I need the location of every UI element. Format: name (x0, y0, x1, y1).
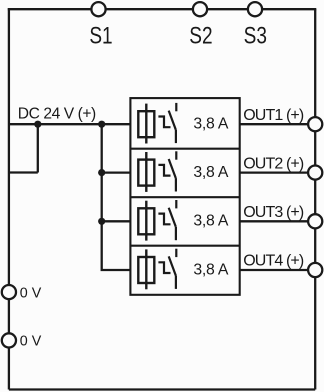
svg-text:DC 24 V (+): DC 24 V (+) (18, 106, 96, 123)
wire left bus (8, 8, 10, 389)
svg-text:0 V: 0 V (20, 334, 42, 350)
breaker CB1 (158, 103, 176, 143)
wire OUT4 (240, 269, 316, 271)
fuse F2 (138, 152, 154, 192)
svg-text:3,8 A: 3,8 A (193, 213, 228, 230)
wire loop vertical (37, 124, 39, 172)
wire OUT1 (240, 123, 316, 125)
terminal OUT2 (308, 166, 322, 180)
svg-text:S3: S3 (244, 22, 267, 50)
terminal S1 (91, 2, 105, 16)
wire right bus (314, 9, 316, 389)
svg-text:S1: S1 (89, 22, 112, 50)
node junction dot B (98, 121, 105, 128)
node junction dot C (98, 169, 105, 176)
svg-text:OUT3 (+): OUT3 (+) (243, 204, 304, 221)
terminal 0V a (2, 285, 16, 299)
wire OUT3 (240, 220, 316, 222)
module box U1 (130, 98, 239, 295)
breaker CB3 (158, 200, 176, 240)
terminal S2 (193, 2, 207, 16)
channel symbols: fuse + breaker (138, 103, 176, 289)
svg-text:3,8 A: 3,8 A (193, 261, 228, 278)
divider row1/2 (130, 148, 239, 150)
divider row2/3 (130, 196, 239, 198)
terminal 0V b (2, 333, 16, 347)
svg-text:0 V: 0 V (20, 285, 42, 301)
breaker CB4 (158, 249, 176, 289)
wire DC 24V feed (9, 123, 130, 125)
svg-text:OUT2 (+): OUT2 (+) (243, 155, 304, 172)
wire top bus (8, 8, 317, 10)
svg-text:OUT1 (+): OUT1 (+) (243, 107, 304, 124)
node junction dot D (98, 218, 105, 225)
svg-text:S2: S2 (189, 22, 212, 50)
wire bottom bus (9, 388, 315, 390)
terminal S3 (248, 2, 262, 16)
breaker CB2 (158, 151, 176, 191)
terminal OUT3 (308, 214, 322, 228)
wire OUT2 (240, 171, 316, 173)
svg-text:3,8 A: 3,8 A (193, 164, 228, 181)
wire branch channel 2 (102, 171, 131, 173)
terminal OUT1 (308, 117, 322, 131)
wire branch channel 3 (102, 220, 131, 222)
wire loop horizontal (9, 171, 38, 173)
svg-text:3,8 A: 3,8 A (193, 116, 228, 133)
fuse F1 (138, 104, 154, 144)
fuse F4 (138, 249, 154, 289)
terminal OUT4 (308, 263, 322, 277)
wire feeder vertical (102, 124, 131, 270)
fuse F3 (138, 201, 154, 241)
divider row3/4 (130, 245, 239, 247)
svg-text:OUT4 (+): OUT4 (+) (243, 253, 304, 270)
node junction dot A (34, 121, 41, 128)
